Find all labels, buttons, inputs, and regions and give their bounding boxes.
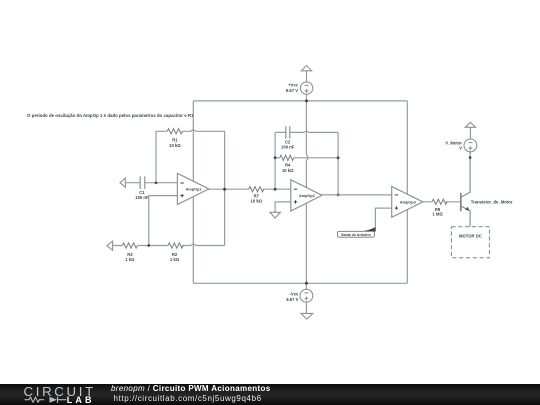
transistor Transistor_do_Motor — [461, 152, 470, 227]
junction C1 row / R1 stem — [155, 181, 158, 184]
wire C1 row — [125, 182, 177, 184]
op-amp AmpOp2 — [291, 180, 322, 211]
wire C2 top row with hop — [275, 131, 338, 132]
svg-text:R7: R7 — [254, 193, 260, 198]
junction R3/R2 node — [147, 244, 150, 247]
wire feedback left vertical — [274, 132, 276, 189]
svg-text:10 kΩ: 10 kΩ — [251, 199, 263, 204]
svg-text:-Vcc: -Vcc — [290, 292, 300, 297]
junction dots feedback — [274, 156, 277, 159]
svg-text:C2: C2 — [285, 139, 291, 144]
wire AmpOp2 output row — [322, 194, 392, 196]
node flag V_Motor — [465, 122, 475, 127]
wire AmpOp3 output row — [423, 201, 460, 203]
junction collector — [469, 156, 472, 159]
svg-text:LAB: LAB — [67, 395, 95, 405]
svg-text:1 kΩ: 1 kΩ — [125, 257, 135, 262]
svg-text:100 nF: 100 nF — [281, 145, 295, 150]
wire left rail — [192, 101, 194, 283]
CircuitLab logo — [0, 381, 110, 405]
wire R4 row — [275, 157, 338, 159]
op-amp AmpOp1 — [177, 173, 209, 204]
svg-text:1 kΩ: 1 kΩ — [170, 257, 180, 262]
svg-text:V: V — [459, 146, 462, 151]
svg-text:Saída do Arduino: Saída do Arduino — [341, 233, 371, 237]
svg-text:R3: R3 — [127, 252, 133, 257]
svg-text:R1: R1 — [172, 138, 178, 143]
resistor R7 — [249, 187, 264, 192]
voltage source +Vcc — [300, 82, 312, 101]
svg-text:AmpOp3: AmpOp3 — [400, 200, 416, 204]
svg-text:O periodo de oscilação do AmpO: O periodo de oscilação do AmpOp 1 é dado… — [27, 113, 194, 118]
wire bottom-left row — [113, 244, 225, 245]
junction bottom rail — [305, 282, 308, 285]
wire AmpOp1 output row — [209, 188, 291, 190]
wire feedback right vertical — [337, 132, 339, 195]
svg-text:Transistor_do_Motor: Transistor_do_Motor — [471, 199, 513, 204]
wire AmpOp3 plus input — [375, 208, 391, 227]
resistor R8 — [432, 199, 447, 204]
node flag +Vcc — [301, 66, 311, 82]
svg-text:9.67 V: 9.67 V — [286, 88, 298, 93]
wire R1 branch — [156, 130, 225, 246]
svg-text:1 MΩ: 1 MΩ — [432, 212, 443, 217]
svg-text:9.67 V: 9.67 V — [286, 297, 298, 302]
voltage source V_Motor — [464, 127, 477, 152]
svg-text:10 kΩ: 10 kΩ — [282, 168, 294, 173]
junction top rail — [305, 99, 308, 102]
ground flag left of R3 — [107, 241, 113, 250]
wire top rail — [193, 100, 407, 102]
svg-text:100 nF: 100 nF — [135, 195, 149, 200]
wire bottom rail — [193, 282, 407, 284]
resistor R1 — [167, 129, 182, 134]
resistor R4 — [280, 155, 294, 160]
capacitor C1 — [140, 176, 145, 189]
footer bar — [0, 384, 540, 405]
svg-text:R2: R2 — [172, 252, 178, 257]
wire mid supply with hop — [306, 101, 308, 283]
node flag Saida do Arduino — [337, 227, 375, 237]
wire AmpOp1 plus input — [149, 196, 178, 246]
resistor R2 — [168, 243, 183, 248]
svg-text:+Vcc: +Vcc — [288, 83, 299, 88]
op-amp AmpOp3 — [392, 187, 423, 218]
svg-text:R4: R4 — [285, 163, 291, 168]
ground flag left of C1 — [120, 178, 125, 187]
ground below -Vcc — [301, 313, 313, 319]
wire AmpOp2 plus input to ground — [275, 202, 291, 212]
resistor R3 — [122, 243, 137, 248]
svg-text:MOTOR DC: MOTOR DC — [459, 234, 482, 239]
capacitor C2 — [286, 126, 290, 138]
svg-text:AmpOp1: AmpOp1 — [186, 187, 202, 191]
svg-text:AmpOp2: AmpOp2 — [299, 194, 315, 198]
svg-text:10 kΩ: 10 kΩ — [169, 143, 181, 148]
junction output/feedback — [223, 188, 226, 191]
wire right rail — [406, 101, 408, 283]
MOTOR DC dashed box — [451, 227, 489, 258]
ground AmpOp2 — [270, 212, 281, 218]
svg-text:C1: C1 — [139, 190, 145, 195]
voltage source -Vcc — [300, 283, 313, 313]
